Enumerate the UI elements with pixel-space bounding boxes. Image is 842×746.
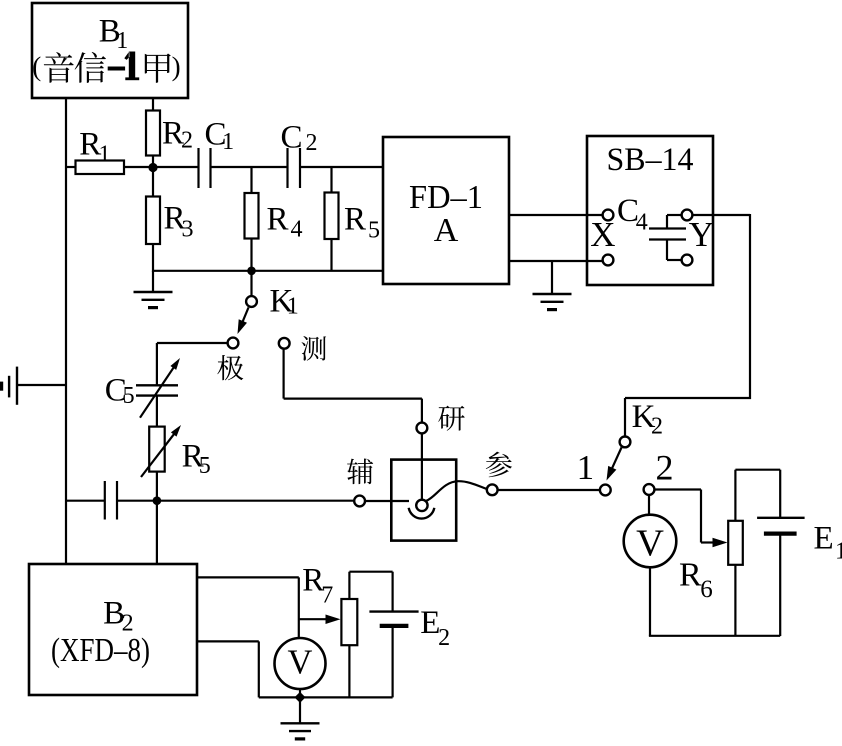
- wire bottom left bus: [259, 696, 393, 698]
- curved wire cell to can: [426, 481, 487, 501]
- ce label: [301, 336, 326, 361]
- svg-text:7: 7: [321, 582, 333, 608]
- battery E2 short plate: [380, 624, 409, 628]
- resistor R4: [245, 193, 259, 239]
- wire ji to C5: [157, 342, 228, 344]
- svg-text:1: 1: [116, 28, 128, 54]
- wire yan to cell: [421, 433, 423, 500]
- wire R6 bottom: [734, 565, 736, 636]
- wire R6 top: [734, 470, 736, 521]
- capacitor C1: [197, 148, 199, 188]
- ground G4 stem: [299, 697, 301, 723]
- wire bus to fu: [157, 500, 354, 502]
- wire E2 top lead: [392, 572, 394, 612]
- wire junction to K1: [250, 271, 252, 296]
- cell cup arc: [409, 508, 435, 519]
- wire B2 top output: [196, 576, 299, 578]
- svg-text:(: (: [32, 52, 41, 82]
- terminal can (reference): [487, 484, 498, 495]
- svg-text:2: 2: [181, 128, 193, 154]
- wire R2 to node: [152, 155, 154, 168]
- svg-text:2: 2: [438, 625, 450, 651]
- wire to R1: [65, 166, 76, 168]
- rheostat R5 lower: [149, 427, 165, 472]
- wire B1 to R2: [152, 98, 154, 111]
- terminal ji (polarize): [228, 338, 239, 349]
- capacitor C5 plates: [136, 384, 178, 386]
- terminal 2: [644, 484, 655, 495]
- svg-text:4: 4: [636, 209, 648, 235]
- ground G3: [16, 367, 18, 405]
- voltmeter V1: [624, 515, 677, 568]
- svg-text:C: C: [281, 120, 303, 156]
- yan label: [438, 406, 464, 431]
- R5b arrow: [141, 433, 175, 477]
- wire R5b to node: [156, 472, 158, 501]
- cell electrode circle: [416, 500, 427, 511]
- oscilloscope SB-14 box: [587, 136, 713, 285]
- svg-text:5: 5: [123, 383, 135, 409]
- wire C6 to node: [117, 500, 157, 502]
- svg-text:1: 1: [835, 538, 842, 564]
- wire FD1 bottom output: [509, 260, 603, 262]
- capacitor C6: [104, 481, 106, 520]
- wire Y to K2: [692, 214, 750, 216]
- K1 arrow: [242, 308, 248, 323]
- wire R7 top: [348, 572, 350, 599]
- node V2 junction: [295, 692, 306, 703]
- wire R3 to ground bus: [152, 244, 154, 272]
- svg-text:5: 5: [199, 453, 211, 479]
- capacitor C2: [286, 148, 288, 188]
- ground G3 stem: [17, 384, 66, 386]
- wire FD1 top output: [509, 214, 603, 216]
- ground G2 stem: [551, 261, 553, 294]
- svg-text:2: 2: [306, 130, 318, 156]
- svg-text:V: V: [288, 644, 313, 682]
- svg-text:6: 6: [700, 576, 713, 603]
- terminal fu (auxiliary): [354, 496, 365, 507]
- terminal ce (measure): [279, 338, 290, 349]
- wire bus to R5a: [330, 167, 332, 193]
- wire V2 to bus: [299, 689, 301, 698]
- wire bus to R4: [250, 167, 252, 194]
- svg-text:(XFD–8): (XFD–8): [51, 632, 150, 669]
- resistor R2: [146, 111, 160, 156]
- svg-text:R: R: [679, 557, 702, 594]
- wire fu into cell: [365, 500, 409, 502]
- svg-text:): ): [172, 52, 181, 82]
- capacitor C4: [666, 215, 668, 229]
- svg-text:3: 3: [182, 216, 194, 242]
- svg-text:E: E: [814, 520, 834, 556]
- node R1-R2-R3 junction: [148, 163, 157, 172]
- fu label: [347, 459, 373, 485]
- svg-text:Y: Y: [689, 215, 714, 254]
- wire B2 bottom output: [196, 640, 259, 642]
- wire can to 1: [498, 489, 600, 491]
- svg-text:X: X: [590, 215, 615, 254]
- wire C1 to R4 node: [211, 166, 289, 168]
- svg-text:V: V: [636, 523, 664, 565]
- wire V1 to bottom: [649, 567, 651, 636]
- node K1 junction: [247, 267, 256, 276]
- wire node to R3: [152, 167, 154, 197]
- resistor R3: [146, 197, 160, 245]
- terminal X top: [603, 210, 614, 221]
- svg-text:1: 1: [577, 448, 595, 487]
- C5 arrow: [140, 366, 174, 417]
- ground G1: [152, 271, 154, 292]
- svg-text:2: 2: [651, 414, 663, 440]
- svg-text:SB–14: SB–14: [607, 142, 694, 178]
- wire C5 to R5b: [156, 396, 158, 427]
- R7 wiper arrow: [299, 618, 328, 620]
- amplifier FD-1A box: [383, 137, 509, 284]
- wire bottom right bus: [649, 635, 780, 637]
- svg-text:A: A: [434, 212, 459, 249]
- can label: [486, 452, 512, 478]
- cell box: [391, 460, 456, 541]
- ground G2: [533, 293, 572, 295]
- voltmeter V2: [275, 638, 326, 689]
- wire E2 bottom lead: [392, 626, 394, 698]
- svg-text:1: 1: [287, 294, 299, 320]
- wire E1 top lead: [779, 470, 781, 518]
- wire node to C1: [153, 166, 199, 168]
- svg-text:4: 4: [291, 217, 303, 243]
- power supply B2 box: [29, 564, 197, 695]
- terminal Y bottom: [682, 255, 693, 266]
- switch K2 pole: [620, 437, 631, 448]
- terminal 1: [600, 485, 611, 496]
- rheostat R6: [728, 521, 743, 565]
- R6 wiper arrow: [701, 541, 715, 543]
- svg-text:1: 1: [99, 141, 111, 167]
- wire ce to yan: [283, 349, 285, 399]
- wire ground bus: [152, 270, 384, 272]
- svg-text:R: R: [344, 202, 366, 238]
- battery E1 short plate: [764, 531, 797, 535]
- wire left to C6: [65, 500, 105, 502]
- switch K1 pole: [246, 296, 257, 307]
- wire B1 left to B2: [65, 98, 67, 565]
- K2 arrow: [611, 448, 621, 470]
- wire R4 to bus: [250, 239, 252, 272]
- wire R1 to node: [124, 166, 154, 168]
- terminal Y top: [682, 210, 693, 221]
- terminal yan (research): [417, 423, 428, 434]
- ground G4: [281, 722, 320, 724]
- svg-text:1: 1: [222, 129, 234, 155]
- svg-text:2: 2: [656, 448, 674, 488]
- wire R5a to bus: [330, 239, 332, 271]
- resistor R5 upper: [325, 193, 339, 240]
- ji label: [217, 355, 243, 380]
- svg-text:R: R: [267, 202, 289, 238]
- battery E2 long plate: [369, 610, 418, 612]
- wire E1 bottom lead: [779, 534, 781, 636]
- node C6 junction: [153, 496, 162, 505]
- wire C2 to FD1: [300, 166, 384, 168]
- wire R7 bottom: [348, 645, 350, 697]
- wire node to B2: [156, 501, 158, 565]
- wire 2 to V1: [648, 495, 650, 516]
- svg-text:5: 5: [368, 218, 380, 244]
- terminal X bottom: [603, 255, 614, 266]
- oscillator B1 box: [32, 3, 188, 98]
- battery E1 long plate: [757, 517, 805, 519]
- rheostat R7: [341, 599, 357, 645]
- wire 2 to R6 corner: [654, 488, 701, 490]
- resistor R1: [76, 161, 125, 175]
- svg-text:FD–1: FD–1: [409, 179, 483, 216]
